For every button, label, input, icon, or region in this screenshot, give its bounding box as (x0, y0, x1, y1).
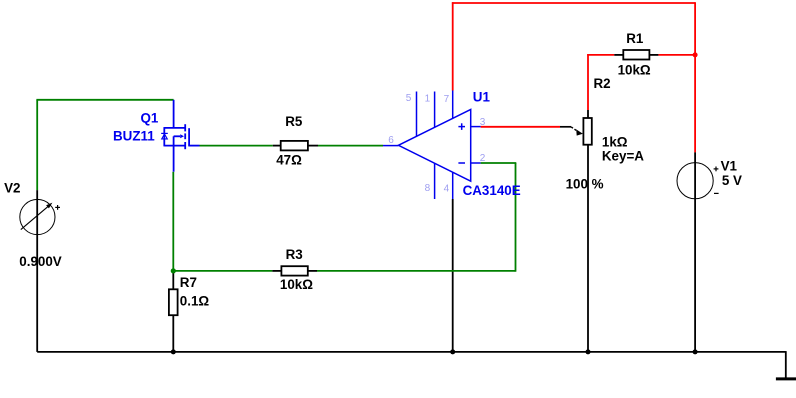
junction V1 bottom (black dot) (693, 349, 698, 354)
svg-text:1: 1 (425, 94, 431, 105)
svg-text:Key=A: Key=A (602, 148, 644, 163)
resistor R1 (614, 50, 658, 60)
wire V2 top vertical (green) (36, 100, 38, 190)
op-amp U1 (CA3140E, blue) (383, 91, 481, 200)
svg-text:10kΩ: 10kΩ (618, 63, 651, 78)
svg-text:8: 8 (425, 183, 431, 194)
voltage source V2 (20, 190, 60, 352)
svg-text:100 %: 100 % (566, 176, 604, 191)
svg-text:CA3140E: CA3140E (463, 183, 521, 198)
wire R3 right horizontal (green) (317, 270, 516, 272)
wire ground rail (black) (37, 351, 786, 353)
wire R1 left to R2 corner (red) (587, 54, 614, 56)
voltage source V1 (677, 152, 719, 352)
junction node R7/R3 (green dot) (171, 268, 176, 273)
wire op-amp pin 3 to wiper (red) (481, 126, 560, 128)
wire ground drop (black) (785, 351, 787, 378)
svg-text:4: 4 (444, 184, 450, 195)
wire R1 right lead to junction (red) (658, 54, 695, 56)
svg-text:R2: R2 (594, 76, 611, 91)
wire Q1 source down to node (green) (172, 172, 174, 271)
svg-text:BUZ11: BUZ11 (113, 128, 155, 143)
svg-text:47Ω: 47Ω (276, 153, 302, 168)
svg-text:6: 6 (388, 135, 394, 146)
Q1 body diode (161, 133, 168, 139)
junction R2 bottom (black dot) (586, 349, 591, 354)
svg-text:5: 5 (406, 93, 412, 104)
wire R1 junction down to V1 (red) (694, 55, 696, 152)
svg-text:R3: R3 (286, 247, 303, 262)
resistor R3 (272, 266, 317, 275)
svg-text:1kΩ: 1kΩ (602, 135, 628, 150)
resistor R5 (273, 141, 318, 151)
svg-text:V2: V2 (4, 181, 20, 196)
wire Q1 gate lead to R5 (green) (200, 145, 273, 147)
svg-text:3: 3 (480, 117, 486, 128)
wire node to R3 left (green) (173, 270, 273, 272)
svg-text:7: 7 (444, 94, 450, 105)
svg-text:Q1: Q1 (141, 111, 159, 126)
transistor Q1 (BUZ11 power MOSFET, blue) (164, 100, 199, 172)
svg-text:U1: U1 (473, 90, 491, 105)
wire vertical up to pin 2 (green) (515, 163, 517, 272)
svg-text:5 V: 5 V (722, 173, 742, 188)
wire right vertical down to R1 junction (red) (694, 2, 696, 55)
wire to op-amp pin 2 (green) (481, 162, 517, 164)
wire V2 to Q1 drain top horizontal (green) (36, 99, 173, 101)
potentiometer R2 (560, 110, 592, 352)
wire op-amp pin 4 to ground rail (black) (452, 199, 454, 352)
svg-text:R7: R7 (180, 275, 197, 290)
wire R5 to op-amp pin 6 (green) (318, 145, 383, 147)
wire op-amp pin 7 up (red) (452, 2, 454, 90)
ground (776, 377, 796, 380)
junction R1 right (red dot) (693, 52, 698, 57)
svg-text:R5: R5 (285, 114, 303, 129)
svg-text:0.1Ω: 0.1Ω (180, 293, 210, 308)
svg-text:0.900V: 0.900V (19, 254, 62, 269)
svg-text:R1: R1 (626, 31, 644, 46)
svg-text:10kΩ: 10kΩ (280, 277, 313, 292)
svg-text:V1: V1 (721, 158, 738, 173)
junction pin 4 ground (black dot) (450, 349, 455, 354)
svg-text:2: 2 (480, 153, 486, 164)
junction R7 bottom (black dot) (171, 349, 176, 354)
resistor R7 (169, 271, 178, 352)
wire top rail horizontal (red) (452, 2, 695, 4)
wire R2 corner down to potentiometer top (red) (587, 54, 589, 110)
